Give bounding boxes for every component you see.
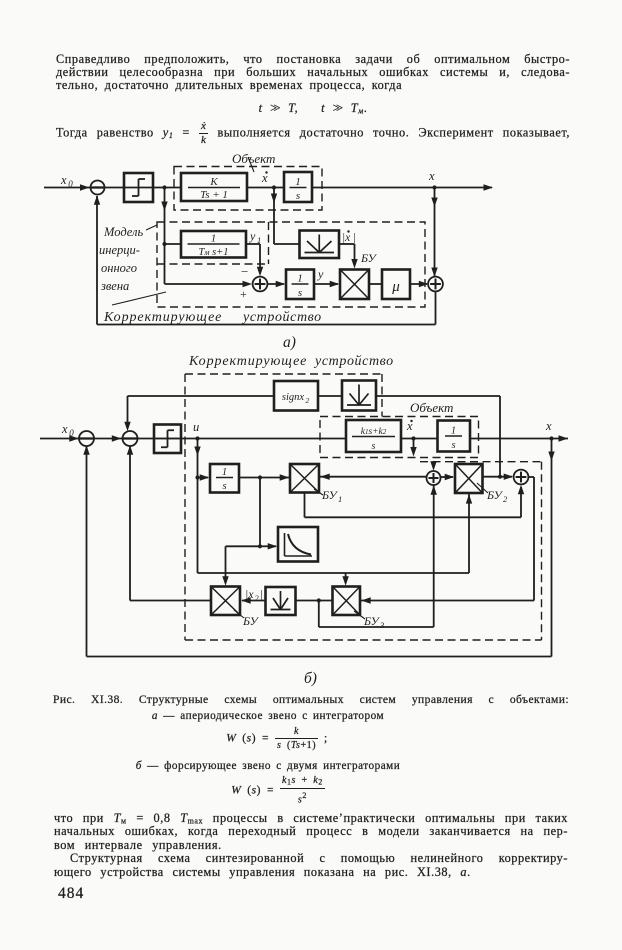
svg-text:y: y [249, 229, 256, 243]
svg-text:онного: онного [101, 261, 137, 275]
svg-text:а): а) [283, 334, 296, 351]
svg-text:Ts + 1: Ts + 1 [200, 189, 228, 201]
svg-text:|: | [260, 587, 263, 601]
svg-text:устройство: устройство [241, 310, 322, 325]
svg-text:2: 2 [503, 494, 508, 504]
svg-text:2: 2 [306, 396, 310, 405]
svg-text:звена: звена [100, 279, 129, 293]
svg-text:Корректирующее: Корректирующее [103, 310, 222, 325]
svg-text:x: x [428, 169, 435, 183]
svg-text:0: 0 [68, 179, 73, 189]
svg-text:x: x [545, 419, 552, 433]
svg-text:s: s [298, 287, 302, 299]
svg-text:БУ: БУ [363, 614, 381, 628]
svg-text:Корректирующее: Корректирующее [188, 354, 307, 369]
svg-text:Tм s+1: Tм s+1 [199, 247, 229, 258]
svg-text:Модель: Модель [103, 225, 143, 239]
svg-text:u: u [193, 420, 199, 434]
svg-text:БУ: БУ [242, 614, 260, 628]
svg-text:x: x [61, 422, 68, 436]
svg-text:s: s [451, 440, 455, 451]
svg-text:1: 1 [222, 467, 227, 478]
svg-text:Объект: Объект [232, 151, 275, 166]
svg-text:устройство: устройство [313, 354, 394, 369]
svg-text:БУ: БУ [321, 488, 339, 502]
svg-text:1: 1 [211, 233, 217, 245]
svg-text:б): б) [304, 670, 317, 687]
svg-text:signx: signx [282, 392, 305, 403]
svg-text:s: s [296, 190, 300, 202]
svg-text:s: s [372, 441, 376, 452]
svg-text:−: − [241, 264, 248, 279]
svg-text:инерци-: инерци- [99, 243, 140, 257]
svg-text:μ: μ [391, 279, 400, 295]
svg-text:+: + [240, 287, 247, 301]
svg-text:|x: |x [342, 232, 351, 244]
svg-text:K: K [209, 176, 218, 188]
svg-text:БУ: БУ [360, 251, 378, 265]
svg-text:Объект: Объект [410, 400, 453, 415]
svg-text:1: 1 [295, 176, 301, 188]
svg-text:s: s [222, 481, 226, 492]
svg-text:1: 1 [338, 494, 342, 504]
svg-text:БУ: БУ [486, 488, 504, 502]
svg-text:k1s+k2: k1s+k2 [361, 427, 387, 437]
svg-text:y: y [317, 267, 324, 281]
svg-text:x: x [60, 173, 67, 187]
svg-text:|: | [353, 232, 356, 244]
svg-text:3: 3 [379, 620, 384, 630]
svg-text:1: 1 [451, 426, 456, 437]
svg-text:1: 1 [297, 273, 303, 285]
